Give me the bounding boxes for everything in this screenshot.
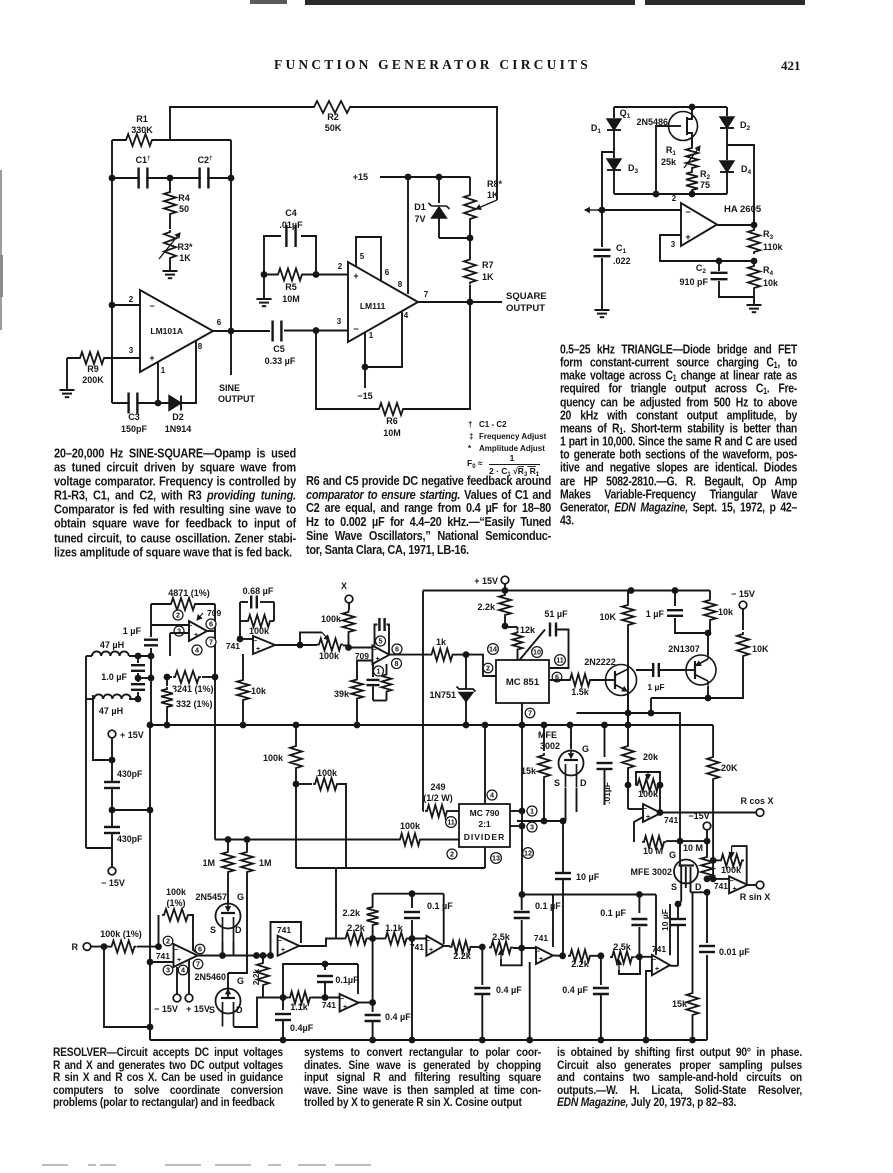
op-amp U3 HA2605 bbox=[681, 203, 717, 246]
wire U11 output bbox=[358, 1002, 373, 1004]
resistor R2 75 bbox=[685, 172, 700, 190]
wire 20k to pot bbox=[627, 665, 629, 786]
wire triangle top rail bbox=[614, 106, 727, 108]
resistor 2.2k chain A1 bbox=[346, 931, 367, 946]
svg-text:1N751: 1N751 bbox=[429, 690, 456, 700]
svg-text:0.68 µF: 0.68 µF bbox=[243, 586, 274, 596]
node 3241 left bbox=[164, 674, 171, 681]
svg-text:R3*: R3* bbox=[177, 242, 193, 252]
node 20K line lower bbox=[710, 876, 717, 883]
node X 100k junction bbox=[345, 644, 352, 651]
wire 2N5457 source to line bbox=[222, 942, 224, 956]
svg-text:6: 6 bbox=[198, 945, 202, 954]
wire diagonal to 51uF bbox=[520, 630, 546, 661]
svg-text:10K: 10K bbox=[752, 644, 769, 654]
wire MC851 out to 2N2222 base bbox=[549, 679, 606, 681]
op-amp U16 741 sin out bbox=[729, 876, 748, 893]
svg-text:Amplitude Adjust: Amplitude Adjust bbox=[479, 444, 545, 453]
diode D2 1N914 bbox=[169, 396, 181, 411]
svg-text:3: 3 bbox=[129, 346, 134, 355]
svg-text:−: − bbox=[643, 806, 647, 813]
capacitor 430pF upper bbox=[109, 783, 115, 787]
resistor 1M right bbox=[246, 840, 248, 851]
resistor 2.5k pot 2 bbox=[612, 950, 632, 965]
node 0.01 bus bbox=[706, 1039, 708, 1041]
capacitor 0.1uF chain A3 bbox=[521, 895, 523, 911]
pin 4 circle bbox=[192, 645, 202, 655]
caption resolver column 1 bbox=[53, 1048, 283, 1111]
capacitor 0.4uF chain A2 bbox=[481, 947, 483, 985]
svg-text:10M: 10M bbox=[383, 428, 401, 438]
svg-text:3002: 3002 bbox=[540, 741, 560, 751]
resistor R1 330K bbox=[126, 133, 152, 148]
capacitor 10uF hold 1 bbox=[560, 874, 566, 878]
svg-text:100k (1%): 100k (1%) bbox=[100, 929, 142, 939]
wire 709 inputs bbox=[151, 624, 189, 626]
svg-text:MFE 3002: MFE 3002 bbox=[630, 867, 672, 877]
resistor 1k bbox=[432, 647, 453, 662]
node chain A3 bus bbox=[598, 1037, 605, 1044]
svg-text:2: 2 bbox=[176, 611, 180, 620]
svg-text:D2: D2 bbox=[172, 412, 184, 422]
wire 1M right to 2N5460 gate bbox=[228, 874, 247, 973]
svg-text:R3: R3 bbox=[763, 229, 774, 241]
node chain A1 bus bbox=[369, 1037, 376, 1044]
resistor R4 50 bbox=[169, 178, 171, 190]
svg-text:20K: 20K bbox=[721, 763, 738, 773]
svg-text:1 µF: 1 µF bbox=[646, 609, 665, 619]
capacitor 1uF bypass bbox=[672, 587, 679, 594]
node emitter branch bbox=[625, 710, 632, 717]
capacitor 0.01uF sin bbox=[706, 892, 708, 943]
svg-text:+: + bbox=[149, 353, 154, 363]
resistor 1.1k chain B bbox=[290, 990, 310, 1005]
svg-text:1: 1 bbox=[161, 366, 166, 375]
svg-text:12: 12 bbox=[524, 849, 532, 858]
diode 1N751 zener bbox=[465, 655, 467, 689]
wire U12 output bbox=[444, 945, 450, 947]
resistor 12k bbox=[504, 626, 518, 628]
wire D2 D4 junction to output rail bbox=[726, 128, 728, 160]
node inductor upper bbox=[135, 653, 142, 660]
node 2N1307 collector bbox=[705, 695, 712, 702]
pin 2 circle bbox=[173, 610, 183, 620]
node gate bottom bbox=[653, 191, 660, 198]
wire Q1 gate to bottom bbox=[656, 126, 669, 194]
svg-text:2.2k: 2.2k bbox=[453, 951, 472, 961]
pot 2 wiper bbox=[618, 960, 620, 970]
svg-text:G: G bbox=[237, 892, 244, 902]
svg-text:0.1 µF: 0.1 µF bbox=[535, 901, 561, 911]
resistor R3 1K variable bbox=[169, 216, 171, 229]
svg-text:5: 5 bbox=[379, 637, 383, 646]
wire U5 output step bbox=[275, 632, 322, 645]
svg-text:51 µF: 51 µF bbox=[544, 609, 568, 619]
node 15k bus bbox=[689, 1037, 696, 1044]
svg-text:‡: ‡ bbox=[469, 432, 473, 441]
svg-text:6: 6 bbox=[217, 318, 222, 327]
wire pot sin line bbox=[713, 859, 719, 861]
svg-text:7: 7 bbox=[528, 709, 532, 718]
node pin8 +15 bbox=[405, 174, 412, 181]
node 2.2k drop bbox=[260, 952, 267, 959]
svg-text:6: 6 bbox=[209, 620, 213, 629]
capacitor C5 0.33uF bbox=[274, 328, 280, 334]
node 1M top right bbox=[244, 836, 251, 843]
svg-text:110k: 110k bbox=[763, 242, 784, 252]
svg-text:741: 741 bbox=[410, 942, 424, 952]
capacitor 1uF input bbox=[148, 641, 154, 644]
svg-text:−: − bbox=[426, 938, 430, 945]
wire LM111 output bbox=[418, 301, 502, 303]
node chain B bus bbox=[280, 1037, 287, 1044]
svg-text:†: † bbox=[468, 420, 472, 429]
diode D3 bbox=[607, 159, 621, 170]
wire to MC851 pin2 bbox=[466, 655, 496, 676]
wire sine output stub bbox=[230, 331, 232, 375]
transistor Q2 2N2222 bbox=[606, 665, 637, 696]
terminal R input bbox=[83, 943, 91, 951]
pin 4 circle U9 bbox=[178, 965, 188, 975]
wire U13 to loop bbox=[552, 895, 554, 948]
wire 10M to -15 node bbox=[666, 840, 707, 842]
wire D1 D3 junction to inverting line bbox=[613, 130, 615, 158]
IC U7 MC851 bbox=[496, 660, 549, 703]
svg-text:+: + bbox=[732, 886, 736, 893]
resistor 1.1k chain A bbox=[386, 931, 407, 946]
svg-text:2: 2 bbox=[129, 295, 134, 304]
capacitor 0.01uF first bbox=[601, 722, 608, 729]
svg-text:3: 3 bbox=[166, 966, 170, 975]
wire pin1 pin4 strap bbox=[364, 333, 366, 367]
svg-text:1 µF: 1 µF bbox=[123, 626, 142, 636]
wire 20K top bbox=[712, 725, 714, 755]
wire 2N1307 emitter to node bbox=[707, 633, 709, 655]
svg-text:741: 741 bbox=[664, 815, 678, 825]
node D1 +15 bbox=[436, 174, 443, 181]
page top scan bar bbox=[250, 0, 287, 4]
svg-text:12k: 12k bbox=[520, 625, 536, 635]
node sampling to gate bbox=[677, 838, 684, 845]
node 1.0uF mid tap bbox=[135, 675, 142, 682]
resistor 2.2k vertical rotated bbox=[256, 963, 271, 985]
ground below C1 bbox=[595, 309, 610, 311]
node 1M top left bbox=[225, 836, 232, 843]
svg-text:2 · C1 √R3 R1: 2 · C1 √R3 R1 bbox=[489, 466, 540, 478]
ground below R3 bbox=[169, 260, 171, 271]
svg-text:G: G bbox=[669, 850, 676, 860]
svg-text:C2: C2 bbox=[696, 263, 707, 275]
svg-text:100k: 100k bbox=[166, 887, 187, 897]
node -15 10M bbox=[704, 838, 711, 845]
svg-text:+: + bbox=[256, 646, 260, 653]
svg-text:100k: 100k bbox=[638, 789, 659, 799]
capacitor C1 bbox=[140, 175, 146, 181]
svg-text:R4: R4 bbox=[178, 193, 190, 203]
svg-text:C1 - C2: C1 - C2 bbox=[479, 420, 507, 429]
svg-text:C5: C5 bbox=[273, 344, 285, 354]
svg-text:+: + bbox=[655, 966, 659, 973]
pin 3 circle U9 bbox=[163, 965, 173, 975]
svg-text:+: + bbox=[429, 947, 433, 954]
svg-text:+ 15V: + 15V bbox=[474, 576, 498, 586]
node R5 right bbox=[313, 271, 320, 278]
resistor 10k U5 bbox=[242, 654, 244, 678]
capacitor 430pF lower bbox=[109, 828, 115, 832]
pin 3 circle U8 bbox=[527, 822, 537, 832]
wire MC790 top bbox=[482, 722, 489, 729]
pin 8 circle U6 bbox=[392, 659, 402, 669]
svg-text:*: * bbox=[468, 444, 472, 453]
capacitor 0.1uF chain B bbox=[322, 961, 329, 968]
terminal -15V right bbox=[739, 601, 747, 609]
svg-text:−: − bbox=[253, 638, 257, 645]
svg-text:R6: R6 bbox=[386, 416, 398, 426]
svg-text:+: + bbox=[177, 957, 181, 964]
wire to U14 bbox=[635, 956, 652, 958]
svg-text:R8*: R8* bbox=[487, 179, 503, 189]
wire pot to U15 input bbox=[627, 785, 629, 809]
svg-text:200K: 200K bbox=[82, 375, 104, 385]
terminal X input bbox=[345, 595, 353, 603]
wire bottom rail bbox=[150, 1039, 707, 1041]
svg-text:S: S bbox=[210, 925, 216, 935]
wire MC851 pin7 to bus and MC790 pins bbox=[521, 703, 523, 895]
caption sine-square right column bbox=[306, 476, 551, 558]
wire hold cap drop bbox=[562, 821, 564, 873]
wire R cos X amp section bbox=[625, 782, 632, 789]
pot wiper chain A bbox=[500, 950, 502, 959]
pin 6 circle bbox=[206, 619, 216, 629]
node chain A 0.1 bbox=[409, 935, 416, 942]
node emitter bus bbox=[625, 722, 632, 729]
svg-text:G: G bbox=[582, 744, 589, 754]
wire U6 fb loop bottom bbox=[372, 687, 374, 701]
svg-text:.01µF: .01µF bbox=[279, 220, 303, 230]
transistor Q5 2N5460 bbox=[216, 989, 241, 1014]
node inverting input bbox=[599, 207, 606, 214]
resistor 10M cos bbox=[634, 817, 643, 842]
svg-text:−: − bbox=[174, 947, 178, 954]
resistor 100k phase horizontal bbox=[296, 783, 312, 785]
resistor 10K right lower bbox=[742, 609, 744, 630]
wire R1 top row bbox=[112, 139, 231, 141]
wire U9 output line bbox=[198, 955, 271, 957]
svg-text:2.2k: 2.2k bbox=[342, 908, 361, 918]
capacitor 0.4uF chain A3b bbox=[600, 956, 602, 985]
svg-text:+: + bbox=[281, 947, 285, 954]
pot sin loop bbox=[732, 846, 747, 885]
svg-text:2.5k: 2.5k bbox=[613, 942, 632, 952]
capacitor C2 bbox=[201, 175, 207, 181]
node chain B start bbox=[280, 994, 287, 1001]
svg-text:0.4µF: 0.4µF bbox=[290, 1023, 314, 1033]
wire to -15V terminal bbox=[111, 833, 113, 867]
node C1-C2 junction bbox=[167, 175, 174, 182]
svg-text:7: 7 bbox=[209, 638, 213, 647]
node 1uF 10k top bbox=[705, 630, 712, 637]
wire R5 row to pin 2 bbox=[264, 274, 348, 276]
resistor 15k sin bbox=[692, 892, 694, 991]
svg-text:150pF: 150pF bbox=[121, 424, 148, 434]
svg-text:13: 13 bbox=[492, 854, 500, 863]
wire 0.68 loop verticals bbox=[239, 602, 241, 637]
capacitor U6 top fb bbox=[375, 625, 378, 646]
wire C1 C2 row bbox=[112, 177, 231, 179]
svg-text:2.2k: 2.2k bbox=[347, 923, 366, 933]
svg-text:2.5k: 2.5k bbox=[492, 932, 511, 942]
svg-text:C1: C1 bbox=[616, 243, 627, 255]
terminal R sin X bbox=[756, 881, 764, 889]
wire 4871 loop top bbox=[151, 603, 215, 605]
node +15V junction bbox=[109, 757, 116, 764]
svg-text:4: 4 bbox=[490, 791, 494, 800]
svg-text:10M: 10M bbox=[282, 294, 300, 304]
pin 7 circle U7 bbox=[525, 708, 535, 718]
resistor 39k bbox=[350, 680, 365, 699]
svg-text:2: 2 bbox=[486, 664, 490, 673]
resistor 100k 1% input bbox=[112, 939, 135, 954]
resistor 100k from X bbox=[348, 603, 350, 610]
svg-text:DIVIDER: DIVIDER bbox=[464, 832, 505, 842]
wire left rail lower bbox=[149, 725, 151, 1040]
wire MFE2 drain down bbox=[690, 867, 692, 892]
node 0.4 chain A2 bbox=[479, 944, 486, 951]
svg-text:Frequency Adjust: Frequency Adjust bbox=[479, 432, 547, 441]
node left rail bus bbox=[147, 722, 154, 729]
svg-text:1: 1 bbox=[510, 453, 515, 463]
capacitor 1uF coupling bbox=[636, 669, 686, 671]
inductor 47uH lower bbox=[94, 694, 131, 699]
resistor 10k right bbox=[709, 591, 711, 599]
svg-text:10k: 10k bbox=[251, 686, 267, 696]
svg-text:+15: +15 bbox=[353, 172, 368, 182]
svg-text:R: R bbox=[72, 942, 79, 952]
svg-text:+: + bbox=[353, 271, 358, 281]
node gate MFE1 bus bbox=[567, 722, 574, 729]
node rail loop line bbox=[519, 891, 526, 898]
svg-text:MFE: MFE bbox=[538, 730, 557, 740]
terminal +15V resolver bbox=[501, 576, 509, 584]
svg-text:709: 709 bbox=[207, 608, 221, 618]
op-amp U4 709 first bbox=[189, 621, 207, 641]
node U9 input bbox=[155, 943, 162, 950]
op-amp U12 741 chain A bbox=[443, 894, 445, 944]
terminal R cos X bbox=[756, 809, 764, 817]
wire D2 to pin 8 bbox=[181, 341, 196, 403]
wire 2N1307 collector net bbox=[650, 698, 652, 713]
resistor R9 200K bbox=[80, 351, 104, 366]
pin 11 circle bbox=[555, 655, 566, 666]
pin 7 circle bbox=[206, 637, 216, 647]
wire +15 left drop bbox=[422, 591, 424, 812]
svg-text:D1: D1 bbox=[591, 123, 602, 135]
left edge scan strip bbox=[0, 170, 2, 330]
wire R input bbox=[91, 946, 110, 948]
diode D2 bbox=[726, 107, 728, 116]
svg-text:0.4 µF: 0.4 µF bbox=[562, 985, 588, 995]
resistor R3 110k bbox=[747, 230, 762, 252]
svg-text:C4: C4 bbox=[285, 208, 297, 218]
wire MC790 bottom link bbox=[484, 847, 486, 868]
wire inverting input with arrow bbox=[598, 209, 681, 211]
svg-text:MC 851: MC 851 bbox=[506, 677, 540, 688]
node 332 bus bbox=[164, 722, 171, 729]
resistor 2.5k pot chain A bbox=[491, 940, 511, 955]
ground at R5 C4 bbox=[263, 275, 265, 300]
pin 14 circle bbox=[488, 644, 499, 655]
svg-text:15k: 15k bbox=[521, 766, 537, 776]
svg-text:0.33 µF: 0.33 µF bbox=[265, 356, 296, 366]
node sampling junction bbox=[648, 710, 655, 717]
wire C5 to LM111 pin3 bbox=[284, 330, 348, 332]
svg-text:4: 4 bbox=[181, 966, 185, 975]
wire X node to 709 input bbox=[349, 647, 373, 649]
svg-text:10k: 10k bbox=[718, 607, 734, 617]
resistor 100k pot cos bbox=[638, 778, 659, 793]
svg-text:910 pF: 910 pF bbox=[679, 277, 708, 287]
svg-text:3: 3 bbox=[671, 240, 676, 249]
svg-text:− 15V: − 15V bbox=[731, 589, 755, 599]
svg-text:S: S bbox=[554, 778, 560, 788]
svg-text:0.4 µF: 0.4 µF bbox=[496, 985, 522, 995]
node 10M bottom bbox=[704, 876, 711, 883]
svg-text:15k: 15k bbox=[672, 999, 688, 1009]
op-amp U9 741 input bbox=[174, 944, 198, 967]
svg-text:8: 8 bbox=[198, 342, 203, 351]
node 100k phase bbox=[293, 781, 300, 788]
node chain B mid bbox=[322, 994, 329, 1001]
svg-text:D3: D3 bbox=[628, 163, 639, 175]
wire chain A line bbox=[336, 938, 344, 940]
svg-text:50: 50 bbox=[179, 204, 189, 214]
wire 20k branch bbox=[293, 722, 300, 729]
svg-text:−: − bbox=[685, 207, 690, 217]
resistor 100k pot X bbox=[319, 637, 341, 652]
wire MFE2 source down bbox=[680, 866, 682, 902]
svg-text:1.0 µF: 1.0 µF bbox=[101, 672, 127, 682]
node R2 bottom bbox=[689, 191, 696, 198]
op-amp U11 741 chain B bbox=[357, 964, 359, 994]
capacitor 10uF hold 2 bbox=[675, 920, 681, 924]
svg-text:0.4 µF: 0.4 µF bbox=[385, 1012, 411, 1022]
node 3241 right bbox=[212, 674, 219, 681]
wire 2N2222 collector to +15 bbox=[628, 587, 635, 594]
node 15k hold bbox=[541, 818, 548, 825]
capacitor 51uF bbox=[551, 627, 555, 633]
wire +15V to 430pF bbox=[111, 738, 113, 760]
svg-text:+: + bbox=[375, 656, 379, 663]
svg-text:D1: D1 bbox=[414, 202, 426, 212]
svg-text:−: − bbox=[353, 324, 358, 334]
svg-text:332 (1%): 332 (1%) bbox=[176, 699, 213, 709]
node 0.01 sin bbox=[704, 889, 711, 896]
wire noninverting input bbox=[660, 235, 754, 261]
svg-text:100k: 100k bbox=[317, 768, 338, 778]
capacitor C1 .022 bbox=[601, 210, 603, 247]
wire pin 8 to +15 bbox=[407, 177, 409, 294]
svg-text:1: 1 bbox=[377, 667, 381, 676]
svg-text:741: 741 bbox=[652, 944, 666, 954]
diode D1 bbox=[613, 107, 615, 118]
capacitor C3 150pF bbox=[130, 400, 136, 406]
svg-text:47 µH: 47 µH bbox=[99, 706, 123, 716]
svg-text:2.2k: 2.2k bbox=[251, 968, 261, 985]
svg-text:R cos X: R cos X bbox=[740, 796, 773, 806]
supply stubs U9 bbox=[176, 967, 178, 994]
svg-text:741: 741 bbox=[714, 881, 728, 891]
svg-text:R7: R7 bbox=[482, 260, 494, 270]
